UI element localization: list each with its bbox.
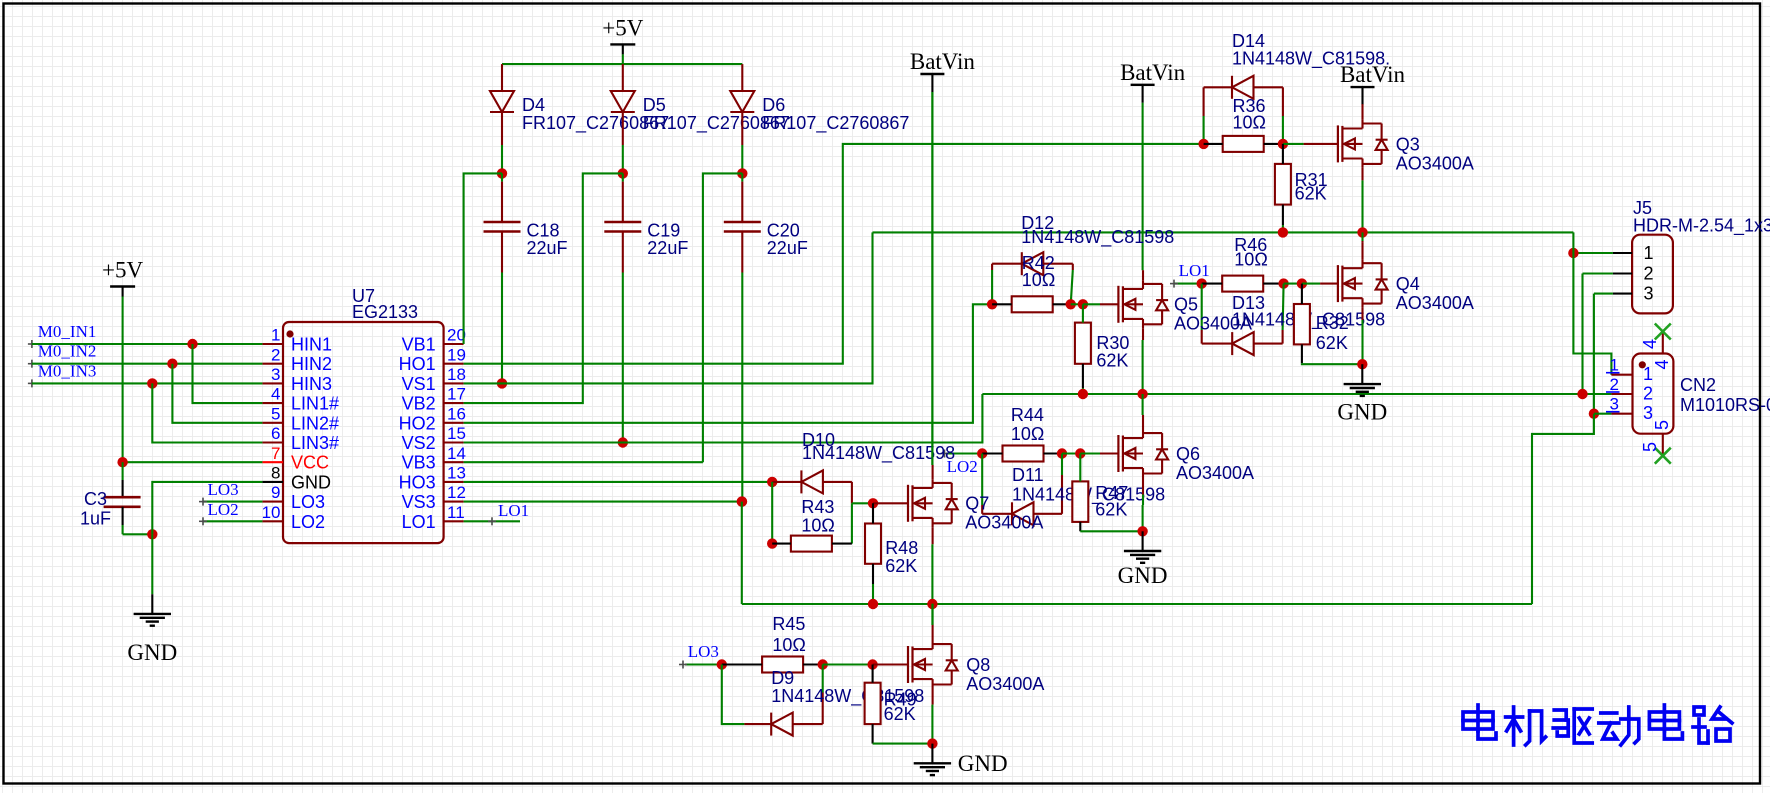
resistor R49 62K [865, 665, 917, 744]
power +5V left [102, 258, 143, 463]
wire phase2 bus [982, 393, 1611, 395]
svg-text:R48: R48 [885, 538, 918, 558]
svg-text:CN2: CN2 [1680, 375, 1716, 395]
svg-text:D6: D6 [762, 95, 785, 115]
svg-text:1: 1 [271, 326, 280, 345]
wire R46 to R32 node [1284, 283, 1302, 285]
CN2 pin 2 [1606, 375, 1653, 403]
wire C20 to VS3 [741, 273, 743, 502]
svg-text:Q8: Q8 [966, 655, 990, 675]
svg-text:HO2: HO2 [399, 413, 436, 433]
junction Q5 source/Q6 drain [1137, 389, 1147, 399]
wire phase1 to CN2 pin1 [1573, 232, 1611, 374]
transistor Q7 AO3400A N-MOSFET [908, 465, 1043, 544]
U7 pin 20 VB1 [402, 326, 466, 355]
svg-text:10Ω: 10Ω [1233, 113, 1266, 133]
wire J5 pin2 wire [1583, 272, 1613, 274]
junction Q7 source/Q8 drain [927, 599, 937, 609]
svg-text:+5V: +5V [602, 15, 643, 40]
wire J5 pin3 riser [1593, 294, 1595, 414]
diode D6 FR107_C2760867 [730, 64, 909, 173]
wire Q6 source down [1142, 505, 1144, 531]
svg-text:R44: R44 [1011, 405, 1044, 425]
U7 pin 5 LIN2# [262, 404, 339, 433]
svg-text:22uF: 22uF [767, 238, 808, 258]
J5 pin 1 [1613, 243, 1654, 263]
svg-text:LO2: LO2 [208, 500, 239, 519]
svg-text:62K: 62K [885, 556, 917, 576]
resistor R45 10Ω [722, 614, 823, 673]
CN2 pin 3 [1606, 395, 1653, 423]
svg-text:5: 5 [1652, 420, 1672, 430]
svg-text:1: 1 [1610, 356, 1619, 375]
svg-text:3: 3 [1643, 403, 1653, 423]
J5 pin 2 [1613, 263, 1654, 283]
gate wire Q7 [873, 502, 908, 504]
wire C19 to VS2 [622, 273, 624, 443]
U7 pin 15 VS2 [402, 424, 466, 453]
net label LO2 at pin10 [199, 500, 262, 526]
GND text at Q8 [958, 751, 1008, 776]
svg-text:7: 7 [271, 444, 280, 463]
resistor R32 62K [1294, 284, 1349, 364]
wire R48 to phase3 [872, 584, 874, 604]
junction VCC/C3 [117, 457, 127, 467]
svg-text:2: 2 [271, 345, 280, 364]
capacitor C3 1uF [80, 462, 141, 534]
junction R31/phase1 [1278, 227, 1288, 237]
wire VB1 riser [464, 173, 502, 344]
svg-text:22uF: 22uF [647, 238, 688, 258]
junction Q3 source/phase1 [1357, 227, 1367, 237]
svg-text:EG2133: EG2133 [352, 302, 418, 322]
svg-text:AO3400A: AO3400A [1176, 463, 1254, 483]
svg-text:1N4148W_C81598: 1N4148W_C81598 [1021, 227, 1174, 248]
resistor R36 10Ω [1204, 96, 1283, 152]
svg-text:9: 9 [271, 483, 280, 502]
diode D4 FR107_C2760867 [490, 64, 669, 173]
wire C18 to VS1 [501, 273, 503, 384]
junction Q7 gate/R48 [868, 498, 878, 508]
IC U7 EG2133 body [283, 286, 444, 543]
diode D9 1N4148W_C81598 [722, 665, 925, 736]
svg-text:M0_IN1: M0_IN1 [38, 322, 97, 341]
resistor R30 62K [1075, 304, 1130, 388]
svg-text:1uF: 1uF [80, 509, 111, 529]
power BatVin 3 [1340, 62, 1406, 105]
wire D10/R43 left riser [771, 482, 773, 544]
wire R31 to phase1 [1282, 225, 1284, 232]
gate wire Q8 [873, 663, 908, 665]
svg-text:Q4: Q4 [1396, 274, 1420, 294]
svg-text:C3: C3 [84, 489, 107, 509]
svg-text:5: 5 [1640, 442, 1660, 452]
svg-text:1N4148W_C81598.: 1N4148W_C81598. [1232, 49, 1390, 70]
transistor Q3 AO3400A N-MOSFET [1304, 104, 1474, 180]
svg-text:HDR-M-2.54_1x3: HDR-M-2.54_1x3 [1633, 216, 1770, 237]
junction R46 left [1197, 278, 1207, 288]
diode D12 1N4148W_C81598 [992, 213, 1174, 304]
wire VB2 riser [464, 173, 623, 403]
connector J5 HDR-M-2.54_1x3 body [1632, 198, 1770, 313]
svg-text:LIN3#: LIN3# [291, 433, 339, 453]
resistor R44 10Ω [982, 405, 1062, 462]
junction R45 right [818, 659, 828, 669]
wire J5 pin2 riser [1581, 274, 1583, 395]
resistor R43 10Ω [772, 497, 852, 552]
wire gate wire Q5 [1083, 303, 1100, 305]
U7 pin 18 VS1 [402, 365, 466, 394]
svg-text:10Ω: 10Ω [1011, 424, 1044, 444]
svg-text:D4: D4 [522, 95, 545, 115]
wire R30 to phase2 [1082, 388, 1084, 394]
svg-text:Q3: Q3 [1396, 134, 1420, 154]
wire VB3 riser [703, 173, 742, 462]
wire phase1 bus [873, 231, 1574, 233]
junction D4/C18 [497, 168, 507, 178]
svg-text:62K: 62K [884, 704, 916, 724]
svg-text:VB1: VB1 [402, 335, 436, 355]
svg-text:12: 12 [447, 483, 466, 502]
svg-text:AO3400A: AO3400A [1396, 293, 1474, 313]
wire Q8 source down [931, 705, 933, 744]
svg-text:62K: 62K [1316, 333, 1348, 353]
svg-text:D5: D5 [643, 95, 666, 115]
svg-text:HO3: HO3 [399, 472, 436, 492]
svg-text:62K: 62K [1095, 500, 1127, 520]
svg-text:1: 1 [1643, 364, 1653, 384]
capacitor C20 22uF [724, 173, 808, 272]
diode D5 FR107_C2760867 [611, 64, 790, 173]
wire Q4 drain to phase1 [1361, 232, 1363, 241]
wire Q3 source to phase1 [1361, 180, 1363, 232]
svg-text:HO1: HO1 [399, 354, 436, 374]
wire Q5 source down [1142, 340, 1144, 394]
U7 pin 6 LIN3# [262, 424, 339, 453]
junction C3/GND [147, 529, 157, 539]
svg-text:LO1: LO1 [1179, 261, 1210, 280]
svg-text:16: 16 [447, 404, 466, 423]
junction R45 left [717, 659, 727, 669]
wire R36 to Q3 gate [1283, 143, 1304, 145]
junction R48/phase3 [868, 599, 878, 609]
junction R42 left [987, 299, 997, 309]
svg-text:BatVin: BatVin [1120, 60, 1186, 85]
U7 pin 1 HIN1 [262, 326, 332, 355]
svg-text:LO1: LO1 [402, 512, 436, 532]
svg-text:2: 2 [1610, 375, 1619, 394]
junction D6/C20 [737, 168, 747, 178]
wire R44 right link [1062, 452, 1080, 454]
svg-text:VCC: VCC [291, 453, 329, 473]
title text 电机驱动电路 (hand-drawn strokes) [1463, 705, 1732, 745]
svg-text:11: 11 [447, 503, 465, 522]
wire R47 to gnd node [1080, 530, 1142, 532]
wire Q6 drain to phase2 [1142, 394, 1144, 415]
svg-text:1: 1 [1644, 243, 1654, 263]
svg-text:4: 4 [1652, 359, 1672, 369]
wire R32 to gnd node [1302, 363, 1362, 364]
svg-text:VS1: VS1 [402, 374, 436, 394]
transistor Q5 AO3400A N-MOSFET [1100, 270, 1252, 340]
CN2 pin 4 no-connect [1640, 324, 1672, 370]
wire M0_IN2 to HIN2 [32, 363, 263, 365]
wire M0_IN3 to LIN3# [152, 383, 262, 442]
net label LO2 at R44 [941, 450, 983, 477]
svg-text:R43: R43 [801, 497, 834, 517]
svg-text:13: 13 [447, 464, 466, 483]
wire gate wire Q4 [1302, 283, 1320, 285]
CN2 pin 1 [1606, 356, 1653, 384]
J5 pin 3 [1613, 283, 1654, 303]
svg-text:HIN1: HIN1 [291, 335, 332, 355]
svg-text:2: 2 [1643, 383, 1653, 403]
ground GND at Q6 [1118, 531, 1168, 588]
junction R44 left [977, 448, 987, 458]
svg-text:3: 3 [1644, 283, 1654, 303]
svg-text:19: 19 [447, 345, 466, 364]
wire top +5V bus [502, 63, 742, 65]
diode D13 1N4148W_C81598 [1202, 284, 1385, 356]
transistor Q4 AO3400A N-MOSFET [1320, 241, 1474, 320]
junction M0_IN2/LIN2 [167, 359, 177, 369]
svg-text:VS3: VS3 [402, 492, 436, 512]
svg-text:22uF: 22uF [527, 238, 568, 258]
connector CN2 M1010RS body [1633, 354, 1770, 434]
diode D14 1N4148W_C81598 [1204, 31, 1391, 144]
resistor R42 10Ω [992, 253, 1071, 312]
U7 pin 2 HIN2 [262, 345, 332, 374]
svg-text:R45: R45 [772, 614, 805, 634]
svg-text:62K: 62K [1096, 351, 1128, 371]
net label LO1 at pin11 [464, 501, 530, 525]
U7 pin 14 VB3 [402, 444, 466, 473]
resistor R48 62K [865, 503, 918, 584]
svg-text:10: 10 [262, 503, 281, 522]
junction R32 top node [1297, 278, 1307, 288]
svg-text:HIN3: HIN3 [291, 374, 332, 394]
svg-text:LO3: LO3 [208, 480, 239, 499]
svg-text:AO3400A: AO3400A [1396, 153, 1474, 173]
net label M0_IN3 [28, 361, 96, 387]
wire gate wire Q6 [1080, 452, 1100, 454]
junction R44 right [1057, 448, 1067, 458]
net label LO3 at pin9 [199, 480, 262, 506]
wire VS1 to phase1 bus [464, 232, 873, 383]
svg-text:HIN2: HIN2 [291, 354, 332, 374]
svg-text:Q7: Q7 [965, 494, 989, 514]
junction Q4 source/R32 [1357, 359, 1367, 369]
svg-text:LO2: LO2 [291, 512, 325, 532]
junction R30 top [1078, 299, 1088, 309]
svg-text:D9: D9 [771, 668, 794, 688]
wire VS3 run [464, 501, 742, 503]
wire D10 right riser [851, 482, 853, 544]
U7 pin 16 HO2 [399, 404, 466, 433]
transistor Q8 AO3400A N-MOSFET [908, 604, 1044, 705]
junction VS3 node [737, 496, 747, 506]
svg-text:15: 15 [447, 424, 466, 443]
svg-text:4: 4 [1640, 339, 1660, 349]
net label M0_IN2 [28, 342, 96, 368]
ground GND at Q4 [1337, 364, 1387, 424]
wire CN2 pin3 to phase3 [1532, 414, 1594, 604]
svg-text:Q5: Q5 [1174, 295, 1198, 315]
junction J5 pin3/CN2 pin3 [1589, 409, 1599, 419]
wire HO3 run [464, 481, 773, 483]
U7 pin 12 VS3 [402, 483, 466, 512]
wire C3 bottom to GND net [123, 533, 153, 535]
resistor R31 62K [1275, 144, 1328, 225]
junction R43 left [767, 538, 777, 548]
U7 pin 8 GND [262, 464, 331, 493]
svg-text:LO1: LO1 [498, 501, 529, 520]
junction R46 right [1278, 278, 1288, 288]
U7 pin 17 VB2 [402, 385, 466, 414]
net label LO1 at R46 [1170, 261, 1210, 288]
svg-text:18: 18 [447, 365, 466, 384]
junction C18/VS1 [497, 378, 507, 388]
svg-text:D11: D11 [1012, 465, 1044, 485]
svg-text:FR107_C2760867: FR107_C2760867 [762, 113, 909, 134]
svg-text:10Ω: 10Ω [772, 635, 805, 655]
wire M0_IN3 to HIN3 [32, 382, 263, 384]
U7 pin 3 HIN3 [262, 365, 332, 394]
wire VS2 run [464, 394, 983, 443]
junction M0_IN3/LIN3 [147, 378, 157, 388]
svg-text:4: 4 [271, 385, 280, 404]
svg-text:GND: GND [1118, 563, 1168, 588]
svg-text:GND: GND [958, 751, 1008, 776]
junction R36 right [1278, 139, 1288, 149]
wire +5V rail to VCC [123, 461, 263, 463]
wire R49 to gnd node [873, 743, 933, 745]
svg-text:Q6: Q6 [1176, 444, 1200, 464]
junction C19/VS2 [618, 437, 628, 447]
wire HO2 run [464, 304, 993, 423]
junction J5 pin2/phase2 [1577, 389, 1587, 399]
diode D11 1N4148W_C81598 [982, 454, 1165, 526]
wire VS3 drop to phase3 bus [741, 502, 743, 604]
capacitor C19 22uF [604, 173, 688, 272]
junction R47 top [1075, 448, 1085, 458]
junction C20/VS3 [737, 496, 747, 506]
svg-text:GND: GND [127, 640, 177, 665]
U7 pin 4 LIN1# [262, 385, 339, 414]
wire CN2 pin3 wire [1594, 413, 1612, 415]
power BatVin 1 [910, 49, 976, 465]
svg-text:62K: 62K [1295, 184, 1327, 204]
wire M0_IN1 to LIN1# [193, 344, 263, 403]
svg-text:3: 3 [271, 365, 280, 384]
svg-text:VB2: VB2 [402, 394, 436, 414]
wire R45 right link [823, 663, 873, 665]
svg-text:LIN2#: LIN2# [291, 413, 339, 433]
net label M0_IN1 [28, 322, 96, 348]
wire ground drop [151, 534, 153, 594]
junction D5/C19 [618, 168, 628, 178]
wire VB3 wire [464, 461, 703, 463]
capacitor C18 22uF [484, 173, 568, 272]
wire HO1 run [464, 144, 1204, 364]
power BatVin 2 [1120, 60, 1186, 270]
svg-text:M1010RS-0: M1010RS-0 [1680, 395, 1770, 415]
svg-text:8: 8 [271, 464, 280, 483]
wire J5 pin1 wire [1573, 252, 1613, 254]
svg-text:LO3: LO3 [688, 642, 719, 661]
wire M0_IN1 to HIN1 [32, 343, 263, 345]
U7 pin 13 HO3 [399, 464, 466, 493]
wire Q7 source to phase3 [931, 544, 933, 604]
svg-text:LO3: LO3 [291, 492, 325, 512]
svg-text:GND: GND [1337, 400, 1387, 425]
svg-text:10Ω: 10Ω [1022, 270, 1055, 290]
svg-text:BatVin: BatVin [910, 49, 976, 74]
wire gate node Q7 [852, 502, 873, 504]
transistor Q6 AO3400A N-MOSFET [1100, 415, 1254, 505]
svg-text:3: 3 [1610, 395, 1619, 414]
junction R49 top [867, 659, 877, 669]
resistor R46 10Ω [1202, 235, 1284, 292]
svg-text:10Ω: 10Ω [1234, 250, 1267, 270]
junction R36 left [1198, 139, 1208, 149]
U7 pin 10 LO2 [262, 503, 325, 532]
wire M0_IN2 to LIN2# [172, 364, 262, 423]
svg-text:17: 17 [447, 385, 466, 404]
U7 pin 9 LO3 [262, 483, 325, 512]
svg-text:6: 6 [271, 424, 280, 443]
wire Q8 drain to phase3 [931, 604, 933, 625]
svg-text:+5V: +5V [102, 258, 143, 283]
svg-text:14: 14 [447, 444, 466, 463]
CN2 pin 5 no-connect [1640, 420, 1672, 464]
U7 pin 19 HO1 [399, 345, 466, 374]
junction R42 right [1066, 299, 1076, 309]
junction Q8 source/R49 [927, 738, 937, 748]
svg-text:VS2: VS2 [402, 433, 436, 453]
ground left GND [127, 594, 177, 665]
svg-text:GND: GND [291, 472, 331, 492]
wire R42 gate node [1071, 303, 1083, 305]
U7 pin 7 VCC [262, 444, 329, 473]
junction J5 pin1 node [1568, 248, 1578, 258]
svg-text:2: 2 [1644, 263, 1654, 283]
junction Q6 source/R47 [1137, 526, 1147, 536]
svg-text:VB3: VB3 [402, 453, 436, 473]
net label LO3 at R45 [679, 642, 722, 669]
power +5V top [602, 15, 643, 64]
wire BatVin1 rail [931, 92, 933, 465]
svg-text:AO3400A: AO3400A [1174, 314, 1252, 334]
svg-text:R32: R32 [1316, 313, 1349, 333]
wire Q4 source down [1361, 320, 1363, 364]
wire phase3 bus [742, 603, 1532, 605]
junction M0_IN1/LIN1 [187, 339, 197, 349]
ground GND at Q8 [914, 744, 951, 776]
diode D10 1N4148W_C81598 [772, 430, 955, 493]
wire J5 pin3 wire [1594, 293, 1613, 295]
U7 pin 11 LO1 [402, 503, 465, 532]
wire U7 GND pin to ground [152, 482, 262, 534]
junction D10 left [767, 477, 777, 487]
svg-text:10Ω: 10Ω [801, 516, 834, 536]
resistor R47 62K [1072, 454, 1128, 532]
svg-text:AO3400A: AO3400A [965, 513, 1043, 533]
svg-text:5: 5 [271, 404, 280, 423]
junction R30/phase2 [1078, 389, 1088, 399]
svg-text:LIN1#: LIN1# [291, 394, 339, 414]
svg-text:AO3400A: AO3400A [966, 674, 1044, 694]
